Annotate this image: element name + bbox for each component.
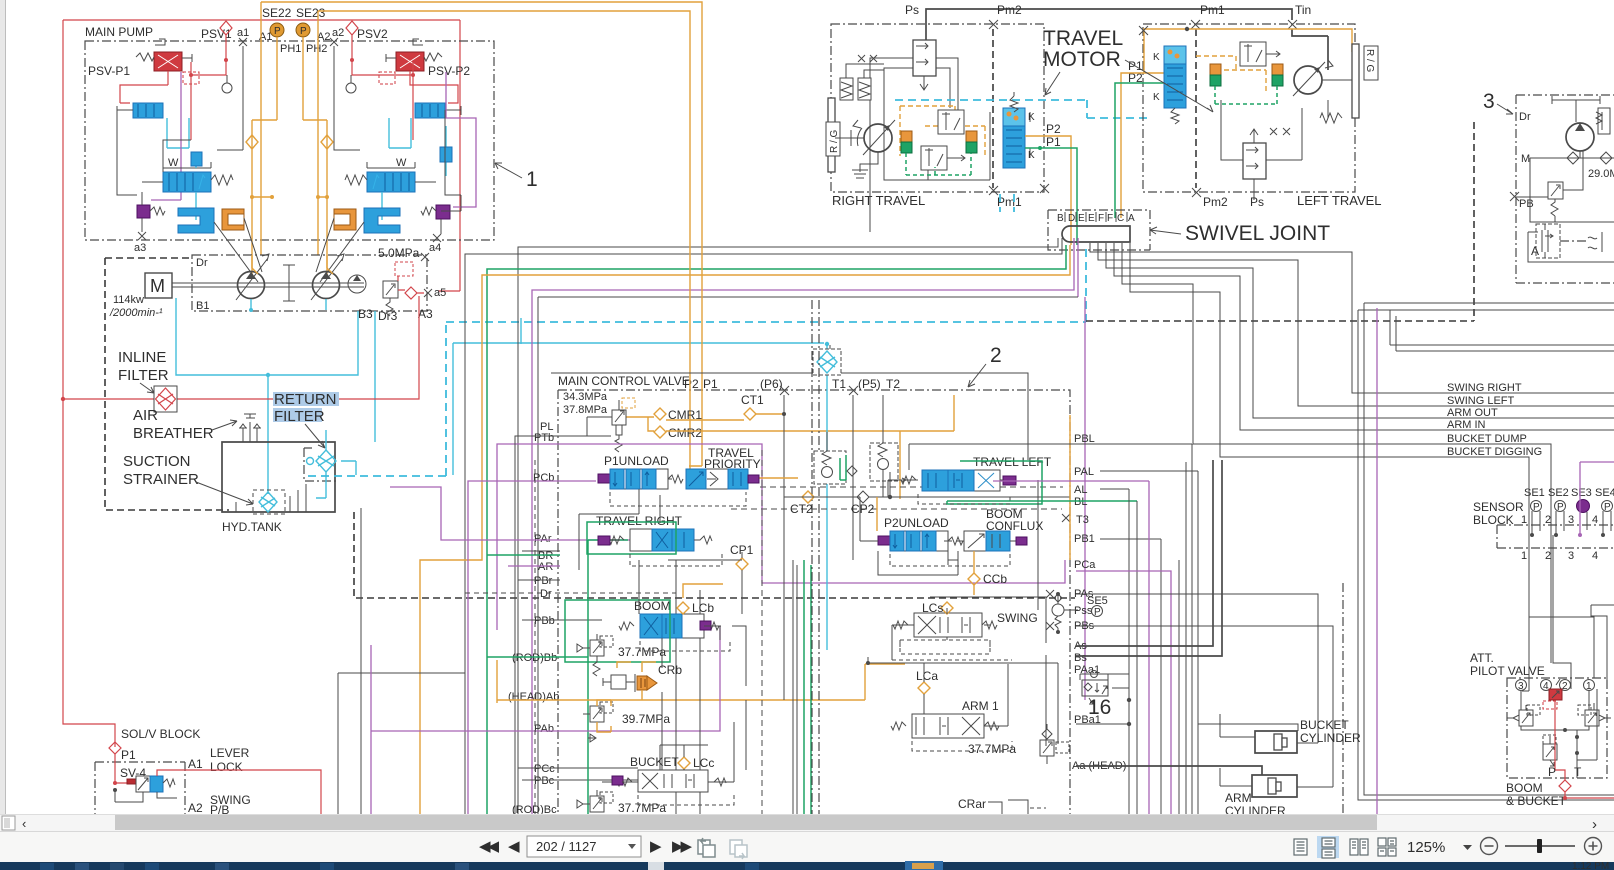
- block3 dashed vertical: [1473, 122, 1475, 321]
- purple pilot line R: [446, 72, 476, 207]
- svg-text:P1: P1: [121, 748, 136, 762]
- green P1 out: [1025, 148, 1077, 245]
- cyan filter diamond: [813, 349, 841, 375]
- svg-text:1: 1: [526, 168, 538, 191]
- spring towers: [840, 64, 884, 100]
- wire PCa purple: [1076, 571, 1171, 814]
- shuttle orange/green R2: [1272, 64, 1283, 86]
- wire PAs long: [1076, 594, 1318, 743]
- dashdot boundary right: [1342, 583, 1344, 814]
- swing dashed box: [900, 640, 990, 654]
- suction strainer dashed box: [253, 490, 285, 514]
- svg-text:LEVER: LEVER: [210, 746, 250, 760]
- valve P1UNLOAD: [598, 454, 683, 489]
- Pm1 dashed: [1195, 29, 1197, 188]
- svg-text:BUCKET DIGGING: BUCKET DIGGING: [1447, 446, 1542, 458]
- feed staircase SE2: [1553, 535, 1571, 689]
- port X pair: [858, 55, 877, 62]
- dashed boxes under valves: [610, 492, 746, 506]
- svg-text:SE23: SE23: [296, 6, 326, 20]
- side glyphs: [1588, 232, 1602, 252]
- bundle gray 2: [465, 238, 1062, 814]
- pump2 swash diagonal: [311, 254, 344, 300]
- svg-text:2: 2: [1545, 514, 1551, 526]
- purple long right: [1078, 238, 1085, 700]
- svg-text:3: 3: [1518, 681, 1524, 692]
- svg-text:K: K: [1028, 112, 1035, 123]
- CCb wire: [973, 551, 975, 595]
- svg-text:Dr: Dr: [1519, 111, 1531, 123]
- swivel label arrow: [1150, 227, 1181, 234]
- sensor SE4: [1602, 501, 1613, 512]
- svg-text:M: M: [1521, 153, 1530, 165]
- svg-text:‹: ‹: [22, 816, 26, 831]
- svg-text:SE3: SE3: [1571, 487, 1592, 499]
- swivel dashdot box: [1048, 210, 1150, 250]
- X P5: [849, 386, 858, 395]
- relief 37.7 arm: [968, 724, 1069, 764]
- counterbalance boxes left travel: [1240, 42, 1280, 66]
- svg-text:LCc: LCc: [693, 756, 714, 770]
- red solenoid: [1549, 689, 1562, 700]
- X on border: [421, 253, 429, 261]
- svg-text:AL: AL: [1074, 484, 1087, 496]
- bundle gray 1: [518, 238, 1058, 814]
- svg-text:SOL/V BLOCK: SOL/V BLOCK: [121, 727, 200, 741]
- outer dashed block: [105, 258, 229, 510]
- motor drain: [852, 152, 878, 178]
- svg-text:4: 4: [1592, 550, 1598, 562]
- motor circle LT: [1294, 66, 1322, 94]
- svg-text:CRar: CRar: [958, 797, 986, 811]
- svg-text:a5: a5: [434, 287, 446, 299]
- CRb regen valve: [603, 662, 682, 700]
- corner X left travel: [1139, 26, 1148, 35]
- svg-text:T3: T3: [1076, 514, 1089, 526]
- svg-text:SWING: SWING: [997, 611, 1038, 625]
- cyan feedback R: [382, 126, 446, 220]
- T3 X: [1062, 514, 1070, 522]
- svg-text:PCa: PCa: [1074, 559, 1096, 571]
- feed right top: [1591, 605, 1614, 689]
- orange CT2 link: [784, 496, 1070, 498]
- PSV-P1 valve red: [136, 39, 199, 84]
- pilot reducing valve right: [1578, 705, 1611, 726]
- red return line y399: [63, 296, 419, 399]
- svg-text:FILTER: FILTER: [118, 367, 169, 384]
- svg-text:SE2: SE2: [1548, 487, 1569, 499]
- svg-text:& BUCKET: & BUCKET: [1506, 794, 1567, 808]
- block3 link lines: [1515, 151, 1614, 222]
- slider: [1505, 845, 1575, 847]
- svg-text:a1: a1: [237, 27, 249, 39]
- svg-text:P1: P1: [703, 377, 718, 391]
- arrow to left travel: [1125, 60, 1213, 112]
- arm cylinder: [1220, 768, 1297, 818]
- suction strainer diamond: [259, 492, 277, 512]
- valve BOOM CONFLUX: [944, 507, 1043, 551]
- sensor dashdot box: [1497, 525, 1614, 548]
- motor circle: [864, 124, 892, 152]
- P1 orange main (A1 crossover): [261, 2, 702, 466]
- pilot wires: [1521, 691, 1594, 744]
- page box: [527, 836, 641, 857]
- svg-text:Dr: Dr: [196, 257, 208, 269]
- cyan A3 path: [453, 318, 824, 344]
- port X a1: [239, 38, 247, 46]
- cyan T1: [826, 344, 828, 650]
- svg-text:AIR: AIR: [133, 407, 158, 424]
- svg-text:a4: a4: [429, 242, 441, 254]
- svg-text:Dr3: Dr3: [378, 309, 398, 323]
- relief 39.7: [583, 700, 670, 742]
- svg-text:B3: B3: [358, 307, 373, 321]
- svg-text:LCb: LCb: [692, 601, 714, 615]
- svg-text:P1: P1: [1046, 135, 1061, 149]
- svg-text:a3: a3: [134, 242, 146, 254]
- relief block3: [1548, 182, 1563, 222]
- svg-text:P: P: [1604, 502, 1611, 513]
- svg-text:BLOCK: BLOCK: [1473, 513, 1514, 527]
- solenoid purple L: [137, 205, 165, 218]
- svg-text:AR: AR: [538, 561, 553, 573]
- svg-text:PB1: PB1: [1074, 533, 1095, 545]
- svg-text:SE4: SE4: [1595, 487, 1614, 499]
- gray misc left ports: [518, 551, 638, 780]
- block3 border: [1516, 95, 1614, 283]
- red A1 wire: [157, 770, 321, 814]
- svg-text:1:12 PM: 1:12 PM: [1572, 861, 1609, 870]
- LCa diamond: [918, 682, 930, 694]
- a4 port: [433, 219, 441, 242]
- purple PTb: [497, 444, 1065, 630]
- svg-text:BOOM: BOOM: [1506, 781, 1543, 795]
- svg-text:STRAINER: STRAINER: [123, 471, 199, 488]
- left window edge strip: [0, 0, 6, 815]
- svg-text:A2: A2: [317, 31, 330, 43]
- svg-text:W: W: [396, 157, 407, 169]
- red diamond a5: [398, 287, 424, 299]
- svg-text:Ps: Ps: [1250, 195, 1264, 209]
- suction strainer arrow: [196, 482, 253, 505]
- svg-text:SE1: SE1: [1524, 487, 1545, 499]
- P2unload wires: [814, 497, 958, 575]
- cyan dashed return link: [304, 245, 1086, 476]
- motor shaft: [835, 130, 864, 146]
- svg-text:2: 2: [1562, 681, 1568, 692]
- purple att feed: [1376, 308, 1378, 870]
- pilot feed pair: [1358, 310, 1614, 800]
- solid sub block: [1528, 232, 1614, 262]
- svg-text:LCs: LCs: [922, 601, 943, 615]
- relief 37.7 bucket: [577, 790, 666, 815]
- frame line red top: [63, 20, 460, 291]
- svg-text:T: T: [1574, 765, 1582, 779]
- svg-text:CMR2: CMR2: [668, 426, 702, 440]
- main servo valve L blue: [163, 157, 233, 192]
- green pilot: [906, 153, 971, 175]
- svg-text:(P6): (P6): [760, 377, 783, 391]
- pump 2 circle: [313, 272, 340, 299]
- dash link right: [1560, 240, 1588, 242]
- svg-text:2: 2: [1545, 550, 1551, 562]
- svg-text:B1: B1: [196, 300, 209, 312]
- svg-text:4: 4: [1592, 514, 1598, 526]
- counterbalance boxes: [921, 110, 965, 170]
- orange swash feeds: [252, 255, 333, 274]
- svg-text:PAb: PAb: [534, 723, 554, 735]
- brake valve Ps LT: [1243, 129, 1266, 179]
- svg-text:3: 3: [1568, 550, 1574, 562]
- svg-text:Dr: Dr: [540, 588, 552, 600]
- left travel border: [1143, 24, 1355, 192]
- motor bottom line: [884, 112, 990, 180]
- T1 T2 upper lines: [551, 345, 1028, 460]
- Pm1 X top: [1191, 20, 1200, 29]
- pump2 arrowhead: [321, 272, 331, 279]
- port X pair LT: [1270, 128, 1290, 135]
- brake valve: [913, 40, 936, 90]
- svg-text:RETURN: RETURN: [274, 391, 337, 408]
- arrow 2: [968, 364, 986, 387]
- svg-text:MOTOR: MOTOR: [1043, 48, 1121, 71]
- long gray verticals left of MCV: [338, 508, 465, 814]
- valve BOOM: [565, 599, 719, 662]
- shuttle orange/green L2: [1210, 64, 1221, 86]
- svg-text:114kw: 114kw: [113, 294, 144, 306]
- svg-text:1: 1: [1521, 550, 1527, 562]
- svg-text:ARM: ARM: [1225, 791, 1252, 805]
- svg-text:(HEAD)Ab: (HEAD)Ab: [508, 691, 559, 703]
- svg-text:(P5): (P5): [858, 377, 881, 391]
- svg-text:INLINE: INLINE: [118, 349, 166, 366]
- orange pilot net: [900, 106, 985, 156]
- orange pilot dashed left-travel: [1196, 56, 1266, 92]
- svg-text:a2: a2: [332, 27, 344, 39]
- pilot valve border: [1507, 678, 1607, 778]
- svg-text:LCa: LCa: [916, 669, 938, 683]
- P2 orange main (A2 crossover): [318, 11, 690, 478]
- svg-text:PAL: PAL: [1074, 466, 1094, 478]
- check diamond orange R: [321, 135, 333, 149]
- main pump block border: [85, 41, 494, 240]
- solenoid dashed box: [1543, 701, 1557, 709]
- Pm2 dashed line: [992, 29, 994, 188]
- svg-text:ARM OUT: ARM OUT: [1447, 407, 1498, 419]
- cyan small boxes: [191, 152, 202, 166]
- orange pair into CMR: [625, 417, 654, 431]
- svg-text:A1: A1: [188, 757, 203, 771]
- svg-text:125%: 125%: [1407, 839, 1445, 856]
- svg-text:P: P: [1557, 502, 1564, 513]
- svg-text:BREATHER: BREATHER: [133, 425, 214, 442]
- purple AR: [508, 565, 560, 567]
- Tin wire: [1292, 29, 1328, 70]
- LCa wires: [868, 657, 1058, 714]
- bundle orange: [420, 245, 1070, 814]
- feed staircase digging: [1522, 457, 1529, 691]
- svg-text:29.0M: 29.0M: [1588, 168, 1614, 180]
- bucket cylinder: [1220, 714, 1361, 753]
- svg-text:Tin: Tin: [1295, 3, 1311, 17]
- svg-text:P1UNLOAD: P1UNLOAD: [604, 454, 669, 468]
- svg-text:ATT.: ATT.: [1470, 651, 1494, 665]
- Pm2 X bottom: [1192, 188, 1201, 197]
- svg-text:TRAVEL LEFT: TRAVEL LEFT: [973, 455, 1052, 469]
- cyan dashed pilot: [895, 100, 1150, 118]
- svg-text:1: 1: [1586, 681, 1592, 692]
- LCb diamond: [677, 602, 689, 614]
- svg-text:P: P: [300, 26, 307, 37]
- red line to frame: [427, 299, 429, 301]
- valve TRAVEL RIGHT: [587, 514, 712, 554]
- CMR2 diamond: [654, 426, 666, 438]
- CP2 diamond: [857, 491, 869, 503]
- Ps feed: [926, 9, 1292, 40]
- cyan dashed stubs into swivel: [1000, 194, 1014, 212]
- sensor SE22: [270, 23, 284, 37]
- red junction dots: [189, 58, 415, 77]
- dashed Dr: [465, 592, 676, 594]
- svg-text:SUCTION: SUCTION: [123, 453, 191, 470]
- X P6: [780, 386, 789, 395]
- svg-text:SE22: SE22: [262, 6, 292, 20]
- relief Dr3: [383, 262, 413, 316]
- svg-text:2: 2: [990, 344, 1002, 367]
- dashed link swivel to block3: [1086, 320, 1474, 322]
- svg-text:5.0MPa: 5.0MPa: [378, 246, 420, 260]
- solenoid purple R: [421, 205, 450, 219]
- red feed: [115, 754, 127, 783]
- red diamond P1: [109, 742, 121, 754]
- svg-text:PH1: PH1: [280, 43, 301, 55]
- svg-text:16: 16: [1088, 696, 1111, 719]
- orange P2 out: [1025, 136, 1071, 245]
- svg-text:PAr: PAr: [534, 533, 552, 545]
- relief main glyph: [563, 398, 635, 452]
- svg-text:SENSOR: SENSOR: [1473, 500, 1524, 514]
- valve link lines: [870, 58, 958, 232]
- svg-text:A2: A2: [188, 801, 203, 815]
- svg-text:B: B: [1057, 213, 1064, 224]
- svg-text:CT1: CT1: [741, 393, 764, 407]
- right edge pair lines: [1358, 303, 1614, 310]
- green ROD Bb: [487, 540, 628, 815]
- gear pump circle: [348, 275, 366, 293]
- red pilot wiring right: [352, 43, 458, 140]
- wire Aa head: [1076, 766, 1262, 775]
- motor swash LT: [1293, 60, 1333, 96]
- svg-text:Bs: Bs: [1074, 652, 1087, 664]
- svg-text:A: A: [1531, 244, 1539, 258]
- CMR1 diamond: [654, 408, 666, 420]
- purple pilot line L: [151, 72, 181, 200]
- pilot center valve: [1543, 735, 1557, 766]
- svg-text:3: 3: [1483, 90, 1495, 113]
- wire PH2 orange: [303, 11, 318, 255]
- shuttle Pss: [1046, 590, 1078, 634]
- inline filter box: [154, 386, 177, 412]
- svg-text:34.3MPa: 34.3MPa: [563, 391, 608, 403]
- cyan return filter pipes: [316, 430, 356, 498]
- wire a2 down: [334, 46, 347, 150]
- right travel border: [831, 24, 1044, 192]
- svg-text:SWIVEL JOINT: SWIVEL JOINT: [1185, 222, 1330, 245]
- valve arrows: [1542, 224, 1553, 258]
- svg-text:1: 1: [1521, 514, 1527, 526]
- T wire: [1577, 689, 1597, 778]
- svg-text:BUCKET DUMP: BUCKET DUMP: [1447, 433, 1527, 445]
- junction dots: [1530, 533, 1605, 537]
- svg-text:W: W: [168, 157, 179, 169]
- svg-text:PB: PB: [1519, 198, 1534, 210]
- svg-text:PSV-P1: PSV-P1: [88, 64, 130, 78]
- main servo valve R blue: [345, 157, 415, 192]
- svg-text:E: E: [1088, 213, 1095, 224]
- check ball L: [222, 83, 232, 93]
- cyan long return: [452, 343, 454, 475]
- SV-4 valve: [127, 776, 175, 792]
- relief 37.7 boom: [577, 634, 666, 676]
- CP1 diamond: [736, 558, 748, 570]
- svg-text:E: E: [1078, 213, 1085, 224]
- svg-text:LOCK: LOCK: [210, 760, 243, 774]
- svg-text:P2: P2: [684, 377, 699, 391]
- purple SE3 feed: [1580, 462, 1614, 535]
- orange cross link: [252, 196, 327, 198]
- svg-text:Pm1: Pm1: [1200, 3, 1225, 17]
- view mode buttons right side: [1289, 836, 1396, 858]
- arrow 1: [495, 163, 522, 178]
- red pilot wiring left: [120, 43, 226, 140]
- svg-text:FILTER: FILTER: [274, 408, 325, 425]
- sensor stubs: [1532, 511, 1611, 535]
- svg-text:/2000min-¹: /2000min-¹: [109, 307, 163, 319]
- svg-text:M: M: [150, 276, 165, 296]
- wire swash orange R: [318, 120, 327, 277]
- valve TRAVEL PRIORITY: [668, 446, 761, 489]
- svg-text:BOOM: BOOM: [634, 599, 671, 613]
- steering spring: [1596, 112, 1602, 130]
- border X right: [1040, 184, 1049, 193]
- boom wires: [662, 626, 746, 770]
- scrollbar thumb: [115, 815, 1377, 830]
- steering pump circle: [1566, 123, 1594, 151]
- svg-text:P: P: [1094, 607, 1101, 618]
- tank inner lines: [222, 470, 236, 512]
- LCc diamond: [678, 757, 690, 769]
- wire PH1 orange: [261, 2, 277, 255]
- relief pair center: [814, 432, 857, 484]
- svg-text:Pm2: Pm2: [997, 3, 1022, 17]
- arrow to right travel: [1045, 72, 1060, 95]
- valve TRAVEL LEFT: [900, 455, 1052, 504]
- svg-text:TRAVEL: TRAVEL: [1043, 27, 1123, 50]
- label RETURN FILTER (highlighted): [273, 392, 339, 406]
- pump unit dashdot border: [192, 255, 427, 311]
- windows taskbar: [0, 862, 1614, 870]
- svg-text:BUCKET: BUCKET: [1300, 718, 1349, 732]
- PSV-P2 valve red: [379, 39, 442, 84]
- cyan pump drains: [251, 299, 326, 310]
- svg-text:SWING RIGHT: SWING RIGHT: [1447, 382, 1522, 394]
- svg-text:PRIORITY: PRIORITY: [704, 457, 761, 471]
- label 1 big: [495, 163, 538, 191]
- svg-text:PBL: PBL: [1074, 433, 1095, 445]
- a5 port X: [424, 289, 432, 297]
- horizontal scrollbar track: [0, 814, 1614, 831]
- CT1 diamond: [744, 408, 756, 420]
